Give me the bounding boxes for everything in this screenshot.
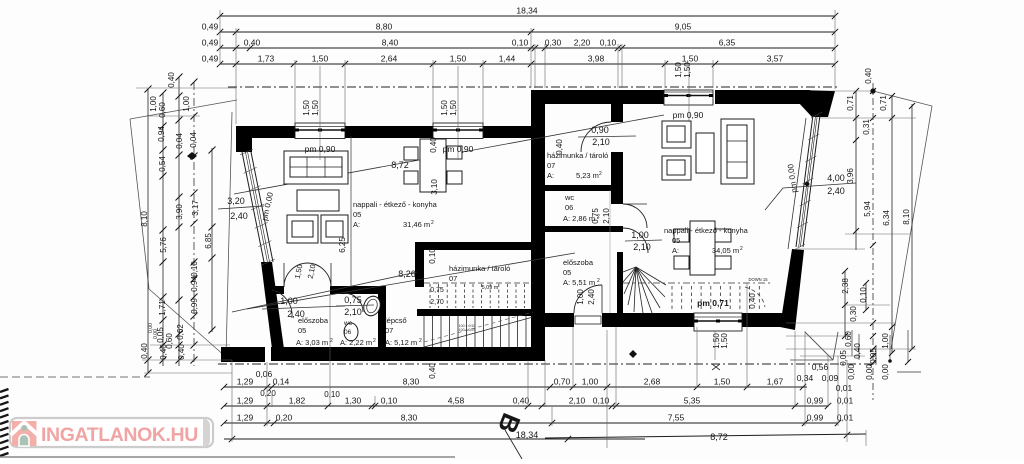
svg-text:0,34: 0,34 (797, 373, 814, 383)
svg-text:3,96: 3,96 (846, 168, 855, 184)
svg-text:1,00: 1,00 (182, 96, 191, 112)
svg-text:0,90: 0,90 (591, 125, 609, 135)
svg-text:2,10: 2,10 (602, 208, 611, 224)
svg-text:A:: A: (547, 171, 554, 180)
svg-text:nappali - étkező - konyha: nappali - étkező - konyha (353, 200, 438, 209)
svg-text:0,40: 0,40 (513, 396, 530, 406)
svg-text:8,10: 8,10 (902, 209, 911, 225)
svg-text:0,10: 0,10 (190, 261, 199, 277)
svg-text:6,85: 6,85 (204, 233, 213, 249)
svg-text:4,00: 4,00 (827, 173, 845, 183)
svg-text:0,40: 0,40 (159, 344, 168, 360)
svg-text:0,10: 0,10 (512, 38, 529, 48)
svg-text:3,98: 3,98 (588, 54, 605, 64)
svg-text:0,49: 0,49 (202, 54, 219, 64)
svg-text:A: 5,12 m: A: 5,12 m (385, 338, 417, 347)
svg-text:A:: A: (672, 246, 679, 255)
svg-text:INGATLANOK.HU: INGATLANOK.HU (41, 424, 198, 446)
svg-text:1,29: 1,29 (237, 396, 254, 406)
svg-text:DOWN 15: DOWN 15 (748, 277, 768, 282)
svg-text:5,23 m: 5,23 m (576, 171, 599, 180)
svg-text:31,46 m: 31,46 m (403, 220, 430, 229)
svg-text:2: 2 (330, 338, 333, 344)
svg-text:0,40: 0,40 (748, 293, 757, 309)
svg-text:0,94: 0,94 (190, 276, 199, 292)
svg-text:8,30: 8,30 (403, 377, 420, 387)
svg-text:wc: wc (564, 193, 574, 202)
svg-text:2,40: 2,40 (287, 309, 305, 319)
svg-text:1,00: 1,00 (280, 296, 298, 306)
svg-text:0,30: 0,30 (849, 306, 858, 322)
svg-text:A: 3,03 m: A: 3,03 m (296, 338, 328, 347)
svg-text:0,06: 0,06 (256, 369, 273, 379)
svg-text:0,54: 0,54 (158, 156, 167, 172)
svg-text:1,50: 1,50 (449, 100, 458, 116)
svg-text:1,50: 1,50 (674, 62, 683, 78)
svg-text:1,73: 1,73 (258, 54, 275, 64)
svg-text:előszoba: előszoba (563, 258, 594, 267)
svg-text:3,10: 3,10 (430, 179, 439, 195)
svg-text:0,40: 0,40 (429, 137, 438, 153)
svg-text:0,00: 0,00 (881, 364, 890, 380)
svg-text:0,00: 0,00 (847, 364, 856, 380)
svg-text:0,09: 0,09 (822, 373, 839, 383)
svg-text:0,40: 0,40 (177, 344, 186, 360)
svg-text:0,40: 0,40 (864, 68, 873, 84)
svg-text:2,68: 2,68 (644, 377, 661, 387)
svg-text:2,10: 2,10 (344, 307, 362, 317)
svg-text:2: 2 (740, 246, 743, 252)
svg-text:pm 0,71: pm 0,71 (697, 298, 729, 308)
svg-text:0,20: 0,20 (260, 389, 276, 398)
svg-text:8,80: 8,80 (376, 22, 393, 32)
svg-text:2,10: 2,10 (569, 396, 586, 406)
svg-text:2: 2 (597, 278, 600, 284)
svg-text:0,40: 0,40 (244, 38, 261, 48)
svg-text:0,30: 0,30 (545, 38, 562, 48)
svg-text:A: 5,51 m: A: 5,51 m (563, 278, 595, 287)
svg-text:0,31: 0,31 (862, 119, 871, 135)
svg-text:0,40: 0,40 (428, 363, 437, 379)
svg-text:0,01: 0,01 (837, 396, 854, 406)
svg-text:6,34: 6,34 (882, 210, 891, 226)
svg-text:1,00: 1,00 (631, 230, 649, 240)
svg-text:3,17: 3,17 (191, 200, 200, 216)
svg-text:0,99: 0,99 (807, 413, 824, 423)
svg-text:07: 07 (449, 274, 457, 283)
svg-text:1,50: 1,50 (450, 54, 467, 64)
svg-text:0,40: 0,40 (853, 343, 862, 359)
svg-text:1,00: 1,00 (149, 96, 158, 112)
svg-text:3,90: 3,90 (175, 204, 184, 220)
svg-text:2: 2 (431, 220, 434, 226)
svg-text:9,05: 9,05 (675, 22, 692, 32)
svg-text:100 x 0/25: 100 x 0/25 (459, 328, 476, 332)
svg-text:nappali - étkező - konyha: nappali - étkező - konyha (664, 226, 749, 235)
svg-text:2,10: 2,10 (592, 137, 610, 147)
svg-text:6,25: 6,25 (338, 237, 347, 253)
svg-text:2,64: 2,64 (381, 54, 398, 64)
svg-text:1,00: 1,00 (881, 333, 890, 349)
svg-text:pm 0,90: pm 0,90 (443, 144, 474, 154)
svg-text:0,40: 0,40 (140, 343, 149, 359)
svg-text:0,56: 0,56 (812, 362, 829, 372)
svg-text:2,20: 2,20 (574, 38, 591, 48)
svg-text:0,71: 0,71 (879, 95, 888, 111)
svg-text:1,50: 1,50 (311, 100, 320, 116)
svg-text:házimunka / tároló: házimunka / tároló (547, 151, 608, 160)
svg-text:0,05: 0,05 (839, 350, 848, 366)
svg-text:1,29: 1,29 (237, 413, 254, 423)
svg-text:1,00: 1,00 (582, 377, 599, 387)
svg-text:0,04: 0,04 (175, 133, 184, 149)
svg-text:A: 2,22 m: A: 2,22 m (340, 338, 372, 347)
svg-text:0,49: 0,49 (202, 22, 219, 32)
svg-text:07: 07 (547, 161, 555, 170)
svg-text:2,10: 2,10 (633, 242, 651, 252)
svg-text:6,35: 6,35 (719, 38, 736, 48)
svg-text:pm 0,90: pm 0,90 (305, 144, 336, 154)
svg-text:0,10: 0,10 (428, 248, 437, 264)
svg-text:0,70: 0,70 (554, 377, 571, 387)
svg-text:1,29: 1,29 (237, 377, 254, 387)
svg-text:1,44: 1,44 (499, 54, 516, 64)
svg-text:0,99: 0,99 (807, 396, 824, 406)
svg-text:06: 06 (344, 329, 352, 336)
svg-text:8,10: 8,10 (140, 211, 149, 227)
svg-text:0,60: 0,60 (158, 102, 167, 118)
svg-text:0,10: 0,10 (859, 287, 868, 303)
svg-text:0,01: 0,01 (836, 383, 853, 393)
svg-text:05: 05 (353, 210, 361, 219)
svg-text:4,58: 4,58 (448, 396, 465, 406)
svg-text:07: 07 (385, 326, 393, 335)
svg-text:1,50: 1,50 (312, 54, 329, 64)
svg-text:1,50: 1,50 (683, 62, 692, 78)
svg-text:8,72: 8,72 (391, 160, 409, 170)
svg-text:2,70: 2,70 (430, 299, 444, 306)
svg-text:0,49: 0,49 (202, 38, 219, 48)
svg-text:05: 05 (298, 326, 306, 335)
svg-text:1,82: 1,82 (289, 396, 306, 406)
svg-text:0,10: 0,10 (600, 38, 617, 48)
svg-text:0,75: 0,75 (591, 208, 600, 224)
svg-text:0,00: 0,00 (865, 364, 874, 380)
svg-text:1,50: 1,50 (440, 100, 449, 116)
svg-text:0,71: 0,71 (846, 95, 855, 111)
svg-text:0,60: 0,60 (844, 331, 853, 347)
svg-text:18,34: 18,34 (516, 6, 538, 16)
svg-text:05: 05 (672, 236, 680, 245)
svg-text:0,75: 0,75 (344, 295, 362, 305)
svg-text:1,50: 1,50 (302, 100, 311, 116)
svg-text:1,50: 1,50 (682, 54, 699, 64)
svg-text:1,67: 1,67 (767, 377, 784, 387)
svg-text:wc: wc (343, 320, 353, 327)
svg-text:0,10: 0,10 (381, 396, 398, 406)
svg-text:34,05 m: 34,05 m (712, 246, 739, 255)
svg-text:8,30: 8,30 (401, 413, 418, 423)
svg-text:8,40: 8,40 (382, 38, 399, 48)
svg-text:2,40: 2,40 (827, 186, 845, 196)
svg-text:2: 2 (373, 338, 376, 344)
svg-text:2: 2 (419, 338, 422, 344)
svg-text:0,14: 0,14 (273, 377, 290, 387)
svg-text:0,40: 0,40 (167, 72, 176, 88)
svg-text:lépcső: lépcső (385, 316, 407, 325)
svg-text:0,04: 0,04 (189, 132, 198, 148)
svg-text:2: 2 (599, 171, 602, 177)
svg-text:1,71: 1,71 (158, 300, 167, 316)
svg-text:1,30: 1,30 (345, 396, 362, 406)
svg-text:0,05: 0,05 (869, 348, 878, 364)
svg-text:0,94: 0,94 (157, 126, 166, 142)
svg-text:5,09 m: 5,09 m (482, 285, 499, 291)
svg-text:0,20: 0,20 (276, 413, 293, 423)
svg-text:pm 0,90: pm 0,90 (673, 110, 704, 120)
svg-text:0,99: 0,99 (190, 298, 199, 314)
svg-text:5,35: 5,35 (684, 396, 701, 406)
svg-text:7,55: 7,55 (668, 413, 685, 423)
svg-text:1,50: 1,50 (720, 333, 729, 349)
svg-text:0,62: 0,62 (176, 324, 185, 340)
svg-text:2,40: 2,40 (230, 211, 248, 221)
svg-text:2,40: 2,40 (587, 289, 596, 305)
svg-text:1,00: 1,00 (576, 289, 585, 305)
svg-text:5,76: 5,76 (159, 237, 168, 253)
svg-text:2,38: 2,38 (841, 278, 850, 294)
svg-text:A:: A: (353, 220, 360, 229)
svg-text:1,50: 1,50 (714, 377, 731, 387)
svg-text:3,20: 3,20 (227, 196, 245, 206)
svg-text:5,94: 5,94 (863, 201, 872, 217)
svg-text:0,00: 0,00 (153, 329, 159, 339)
svg-text:8,72: 8,72 (710, 432, 728, 442)
svg-text:0,10: 0,10 (324, 390, 340, 399)
svg-text:06: 06 (565, 203, 573, 212)
svg-text:0,75: 0,75 (430, 287, 444, 294)
svg-text:0,01: 0,01 (837, 413, 854, 423)
svg-text:3,57: 3,57 (767, 54, 784, 64)
svg-text:házimunka / tároló: házimunka / tároló (449, 264, 510, 273)
svg-text:05: 05 (563, 268, 571, 277)
